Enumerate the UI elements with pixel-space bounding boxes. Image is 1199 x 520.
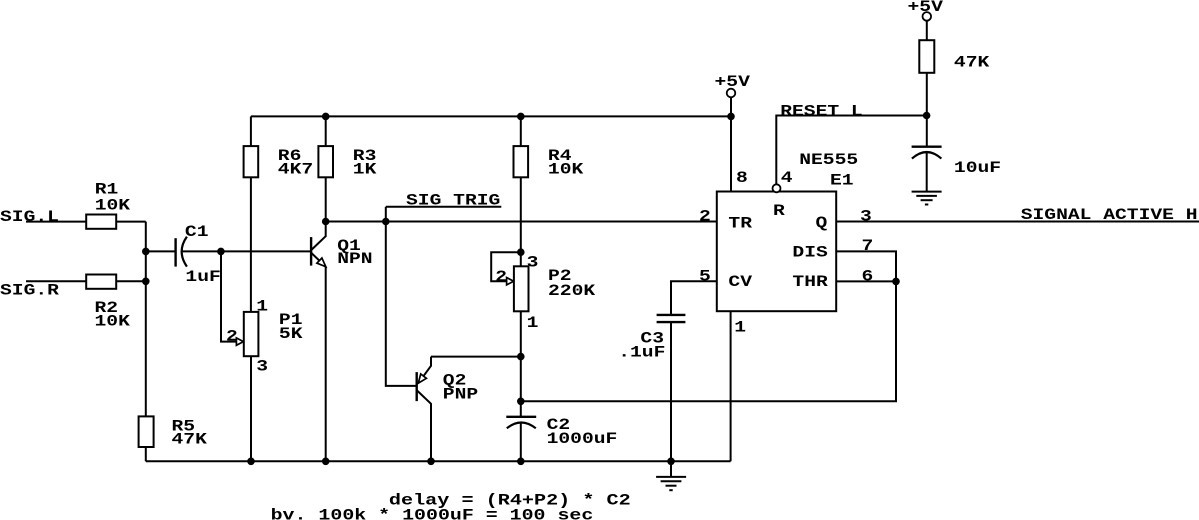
resistor R3 label: [353, 147, 377, 165]
wire pin 3 Q output: [836, 221, 1199, 223]
junction R4 at +5V rail: [518, 113, 525, 120]
svg-text:2: 2: [226, 328, 238, 346]
transistor Q2 base bar: [416, 372, 418, 401]
wire ground rail (bottom): [146, 460, 731, 462]
wire pin 6 THR: [836, 280, 896, 282]
junction RESET L node: [923, 112, 930, 119]
resistor R3 body: [318, 146, 333, 177]
wire SIG TRIG label riser: [385, 207, 387, 222]
junction SIG TRIG / Q2 base branch: [383, 218, 390, 225]
junction node C at THR wire: [518, 398, 525, 405]
capacitor C1 left plate: [174, 238, 176, 266]
wire pin 7 DIS to right bus: [836, 251, 896, 281]
resistor R1 label: [95, 181, 119, 199]
capacitor 10uF curved plate: [912, 152, 942, 159]
capacitor C1 label: [185, 223, 209, 241]
svg-text:1000uF: 1000uF: [547, 431, 618, 449]
wire C3 to ground rail: [670, 322, 672, 461]
pin Q label inside box: [816, 215, 828, 233]
resistor R2 label: [95, 299, 119, 317]
transistor Q1 type NPN: [337, 250, 372, 268]
wire 10uF to ground: [926, 152, 928, 192]
junction Q2 collector at ground rail: [428, 458, 435, 465]
junction pins 6 and 7: [893, 278, 900, 285]
power +5V terminal (right): [923, 12, 932, 21]
potentiometer P2 body: [514, 266, 529, 311]
junction P2 wiper tie: [518, 249, 525, 256]
capacitor C3 bottom plate: [657, 321, 686, 323]
resistor R6 label: [278, 147, 302, 165]
wire Q2 emitter to node C: [431, 356, 521, 358]
wire 47K to RESET node: [926, 73, 928, 147]
pin 1 number label: [734, 319, 746, 337]
svg-text:10K: 10K: [548, 161, 584, 179]
wire R6 to P1 top: [250, 177, 252, 312]
pin 8 number label: [736, 170, 748, 188]
resistor R4 label: [548, 147, 572, 165]
transistor Q1 collector: [311, 222, 325, 250]
resistor R1 body: [86, 215, 116, 229]
capacitor C3 value .1uF: [618, 344, 665, 362]
resistor R5 value 47K: [172, 431, 208, 449]
resistor R4 body: [514, 146, 529, 177]
capacitor C2 value 1000uF: [547, 431, 618, 449]
svg-text:1: 1: [734, 319, 746, 337]
resistor R6 body: [244, 146, 259, 177]
pin 7 number label: [862, 237, 874, 255]
pin 3 number label: [860, 208, 872, 226]
wire P1 bottom to ground rail: [250, 356, 252, 461]
junction Q1 emitter at ground rail: [322, 458, 329, 465]
svg-text:.1uF: .1uF: [618, 344, 665, 362]
resistor R3 value 1K: [353, 161, 377, 179]
svg-text:10K: 10K: [95, 313, 131, 331]
potentiometer P2 wiper arrow: [507, 278, 514, 285]
wire +5V to 47K resistor: [926, 21, 928, 41]
pin THR label inside box: [792, 274, 828, 292]
svg-text:SIG.R: SIG.R: [0, 282, 59, 300]
wire Q1 emitter to ground rail: [325, 267, 327, 462]
potentiometer P1 body: [244, 312, 259, 356]
potentiometer P2 value 220K: [548, 283, 595, 301]
svg-text:TR: TR: [728, 215, 752, 233]
junction C2 at ground rail: [518, 458, 525, 465]
power +5V label (left): [715, 73, 751, 91]
svg-text:4: 4: [781, 169, 793, 187]
resistor R5 label: [172, 418, 196, 436]
potentiometer P1 pin 3 label: [256, 358, 268, 376]
svg-text:47K: 47K: [172, 431, 208, 449]
transistor Q2 type PNP: [443, 386, 478, 404]
wire P2 bottom through node C to C2: [520, 311, 522, 417]
svg-text:+5V: +5V: [908, 0, 944, 16]
svg-text:5: 5: [699, 268, 711, 286]
IC type label NE555: [799, 151, 858, 169]
wire RESET L to pin 4: [776, 116, 926, 185]
resistor R1 value 10K: [95, 197, 131, 215]
transistor Q2 emitter arrow (PNP): [418, 374, 426, 383]
transistor Q2 emitter: [419, 357, 431, 383]
resistor R5 body: [139, 416, 154, 447]
capacitor C1 curved plate: [182, 237, 187, 267]
transistor Q1 base bar: [310, 237, 312, 266]
capacitor 10uF top plate: [912, 145, 942, 147]
svg-text:220K: 220K: [548, 283, 595, 301]
svg-text:6: 6: [862, 268, 874, 286]
potentiometer P1 label: [279, 312, 303, 330]
resistor R2 body: [86, 275, 116, 289]
junction node A at R2 branch: [143, 278, 150, 285]
pin 4 inversion bubble: [773, 184, 781, 192]
svg-text:CV: CV: [728, 274, 752, 292]
svg-text:RESET L: RESET L: [780, 103, 863, 121]
pin CV label inside box: [728, 274, 752, 292]
svg-text:1uF: 1uF: [185, 268, 220, 286]
wire THR bus down to C2 node: [521, 281, 896, 401]
wire SIG.R to R2: [26, 280, 86, 282]
pin TR label inside box: [728, 215, 752, 233]
potentiometer P1 pin 1 label: [256, 298, 268, 316]
wire SIG.L to R1: [26, 221, 86, 223]
node SIG.R input label: [0, 282, 59, 300]
capacitor C2 top plate: [506, 416, 536, 418]
capacitor C1 value 1uF: [185, 268, 220, 286]
svg-text:NE555: NE555: [799, 151, 858, 169]
svg-text:3: 3: [860, 208, 872, 226]
junction node C (Q2 emitter / P2 bottom): [518, 353, 525, 360]
node SIG TRIG label: [406, 192, 500, 210]
svg-text:10uF: 10uF: [954, 159, 1001, 177]
wire C1 to node B: [182, 250, 221, 252]
svg-text:bv. 100k * 1000uF = 100 sec: bv. 100k * 1000uF = 100 sec: [271, 507, 594, 520]
pin 6 number label: [862, 268, 874, 286]
power +5V terminal (left): [727, 89, 736, 98]
potentiometer P2 pin 2 label: [495, 269, 507, 287]
pin DIS label inside box: [792, 244, 828, 262]
node SIGNAL ACTIVE H label: [1021, 207, 1198, 225]
wire pin 1 to ground rail: [730, 311, 732, 461]
svg-text:1K: 1K: [353, 161, 377, 179]
junction +5V feed at rail: [728, 113, 735, 120]
potentiometer P1 value 5K: [279, 325, 303, 343]
ground symbol right: [912, 192, 942, 205]
svg-text:8: 8: [736, 170, 748, 188]
wire P2 wiper loop: [491, 252, 521, 281]
potentiometer P2 pin 3 label: [527, 254, 539, 272]
wire P1 wiper from node B: [221, 251, 237, 341]
junction node B (C1 out / P1 wiper): [218, 248, 225, 255]
potentiometer P1 wiper arrow: [236, 338, 243, 345]
svg-text:C1: C1: [185, 223, 209, 241]
wire rail down to R4: [520, 116, 522, 146]
wire node B to Q1 base: [221, 250, 311, 252]
junction R3 at +5V rail: [322, 113, 329, 120]
potentiometer P1 pin 2 label: [226, 328, 238, 346]
transistor Q1 label: [337, 238, 361, 256]
transistor Q1 emitter arrow: [317, 258, 326, 267]
wire R5 to ground rail: [145, 447, 147, 461]
capacitor value 10uF label: [954, 159, 1001, 177]
power +5V label (right): [908, 0, 944, 16]
pin 2 number label: [699, 208, 711, 226]
capacitor C2 label: [547, 416, 571, 434]
junction Q1 collector / SIG TRIG wire: [322, 218, 329, 225]
svg-text:7: 7: [862, 237, 874, 255]
svg-text:E1: E1: [830, 172, 854, 190]
svg-text:PNP: PNP: [443, 386, 478, 404]
svg-text:1: 1: [527, 315, 539, 333]
wire R1 to node A: [116, 221, 146, 223]
resistor R4 value 10K: [548, 161, 584, 179]
wire R3 to Q1 collector node: [325, 177, 327, 221]
node SIG.L input label: [0, 208, 59, 226]
svg-text:5K: 5K: [279, 325, 303, 343]
wire rail down to R6: [250, 116, 252, 146]
wire R4 to P2 (crosses TR wire): [520, 177, 522, 266]
op-amp U1 NE555 body box: [717, 192, 836, 312]
capacitor C2 curved plate: [507, 422, 536, 428]
svg-text:SIG.L: SIG.L: [0, 208, 59, 226]
svg-text:THR: THR: [792, 274, 828, 292]
svg-text:DIS: DIS: [792, 244, 828, 262]
transistor Q2 collector: [417, 391, 431, 462]
potentiometer P2 label: [548, 268, 572, 286]
ground symbol bottom: [656, 461, 686, 490]
wire rail down to R3: [325, 116, 327, 146]
wire pin 5 CV to C3: [671, 281, 717, 315]
junction node A at C1 branch: [143, 248, 150, 255]
wire node A to C1: [146, 250, 176, 252]
svg-text:R: R: [773, 203, 785, 221]
formula text example: [271, 507, 594, 520]
svg-text:+5V: +5V: [715, 73, 751, 91]
potentiometer P2 pin 1 label: [527, 315, 539, 333]
pin 4 number label: [781, 169, 793, 187]
wire +5V terminal to rail and pin 8: [730, 97, 732, 191]
pin R label inside box: [773, 203, 785, 221]
wire +5V rail (top): [251, 115, 731, 117]
svg-text:10K: 10K: [95, 197, 131, 215]
node RESET L label: [780, 103, 863, 121]
svg-text:2: 2: [699, 208, 711, 226]
capacitor C3 label: [640, 330, 664, 348]
formula text delay: [389, 492, 631, 510]
resistor 47K body (reset pullup): [919, 40, 934, 73]
transistor Q1 emitter: [311, 253, 325, 266]
svg-text:SIGNAL ACTIVE H: SIGNAL ACTIVE H: [1021, 207, 1198, 225]
capacitor C3 top plate: [657, 314, 686, 316]
wire node A vertical (SIG.L down to R5): [145, 222, 147, 417]
transistor Q2 label: [443, 372, 467, 390]
wire C2 bottom to ground rail: [520, 422, 522, 461]
node SIG TRIG underline: [386, 206, 502, 208]
wire down to Q2 base: [386, 222, 417, 386]
svg-text:1: 1: [256, 298, 268, 316]
resistor R6 value 4K7: [278, 161, 313, 179]
resistor R2 value 10K: [95, 313, 131, 331]
svg-text:2: 2: [495, 269, 507, 287]
wire SIG TRIG / TR (pin2) horizontal: [326, 221, 717, 223]
svg-text:NPN: NPN: [337, 250, 372, 268]
resistor value 47K label: [954, 54, 990, 72]
svg-text:Q: Q: [816, 215, 828, 233]
wire R2 to node A: [116, 280, 146, 282]
IC reference label E1: [830, 172, 854, 190]
svg-text:47K: 47K: [954, 54, 990, 72]
junction C3 at ground rail: [668, 458, 675, 465]
svg-text:3: 3: [256, 358, 268, 376]
svg-text:4K7: 4K7: [278, 161, 313, 179]
pin 5 number label: [699, 268, 711, 286]
junction P1 at ground rail: [248, 458, 255, 465]
